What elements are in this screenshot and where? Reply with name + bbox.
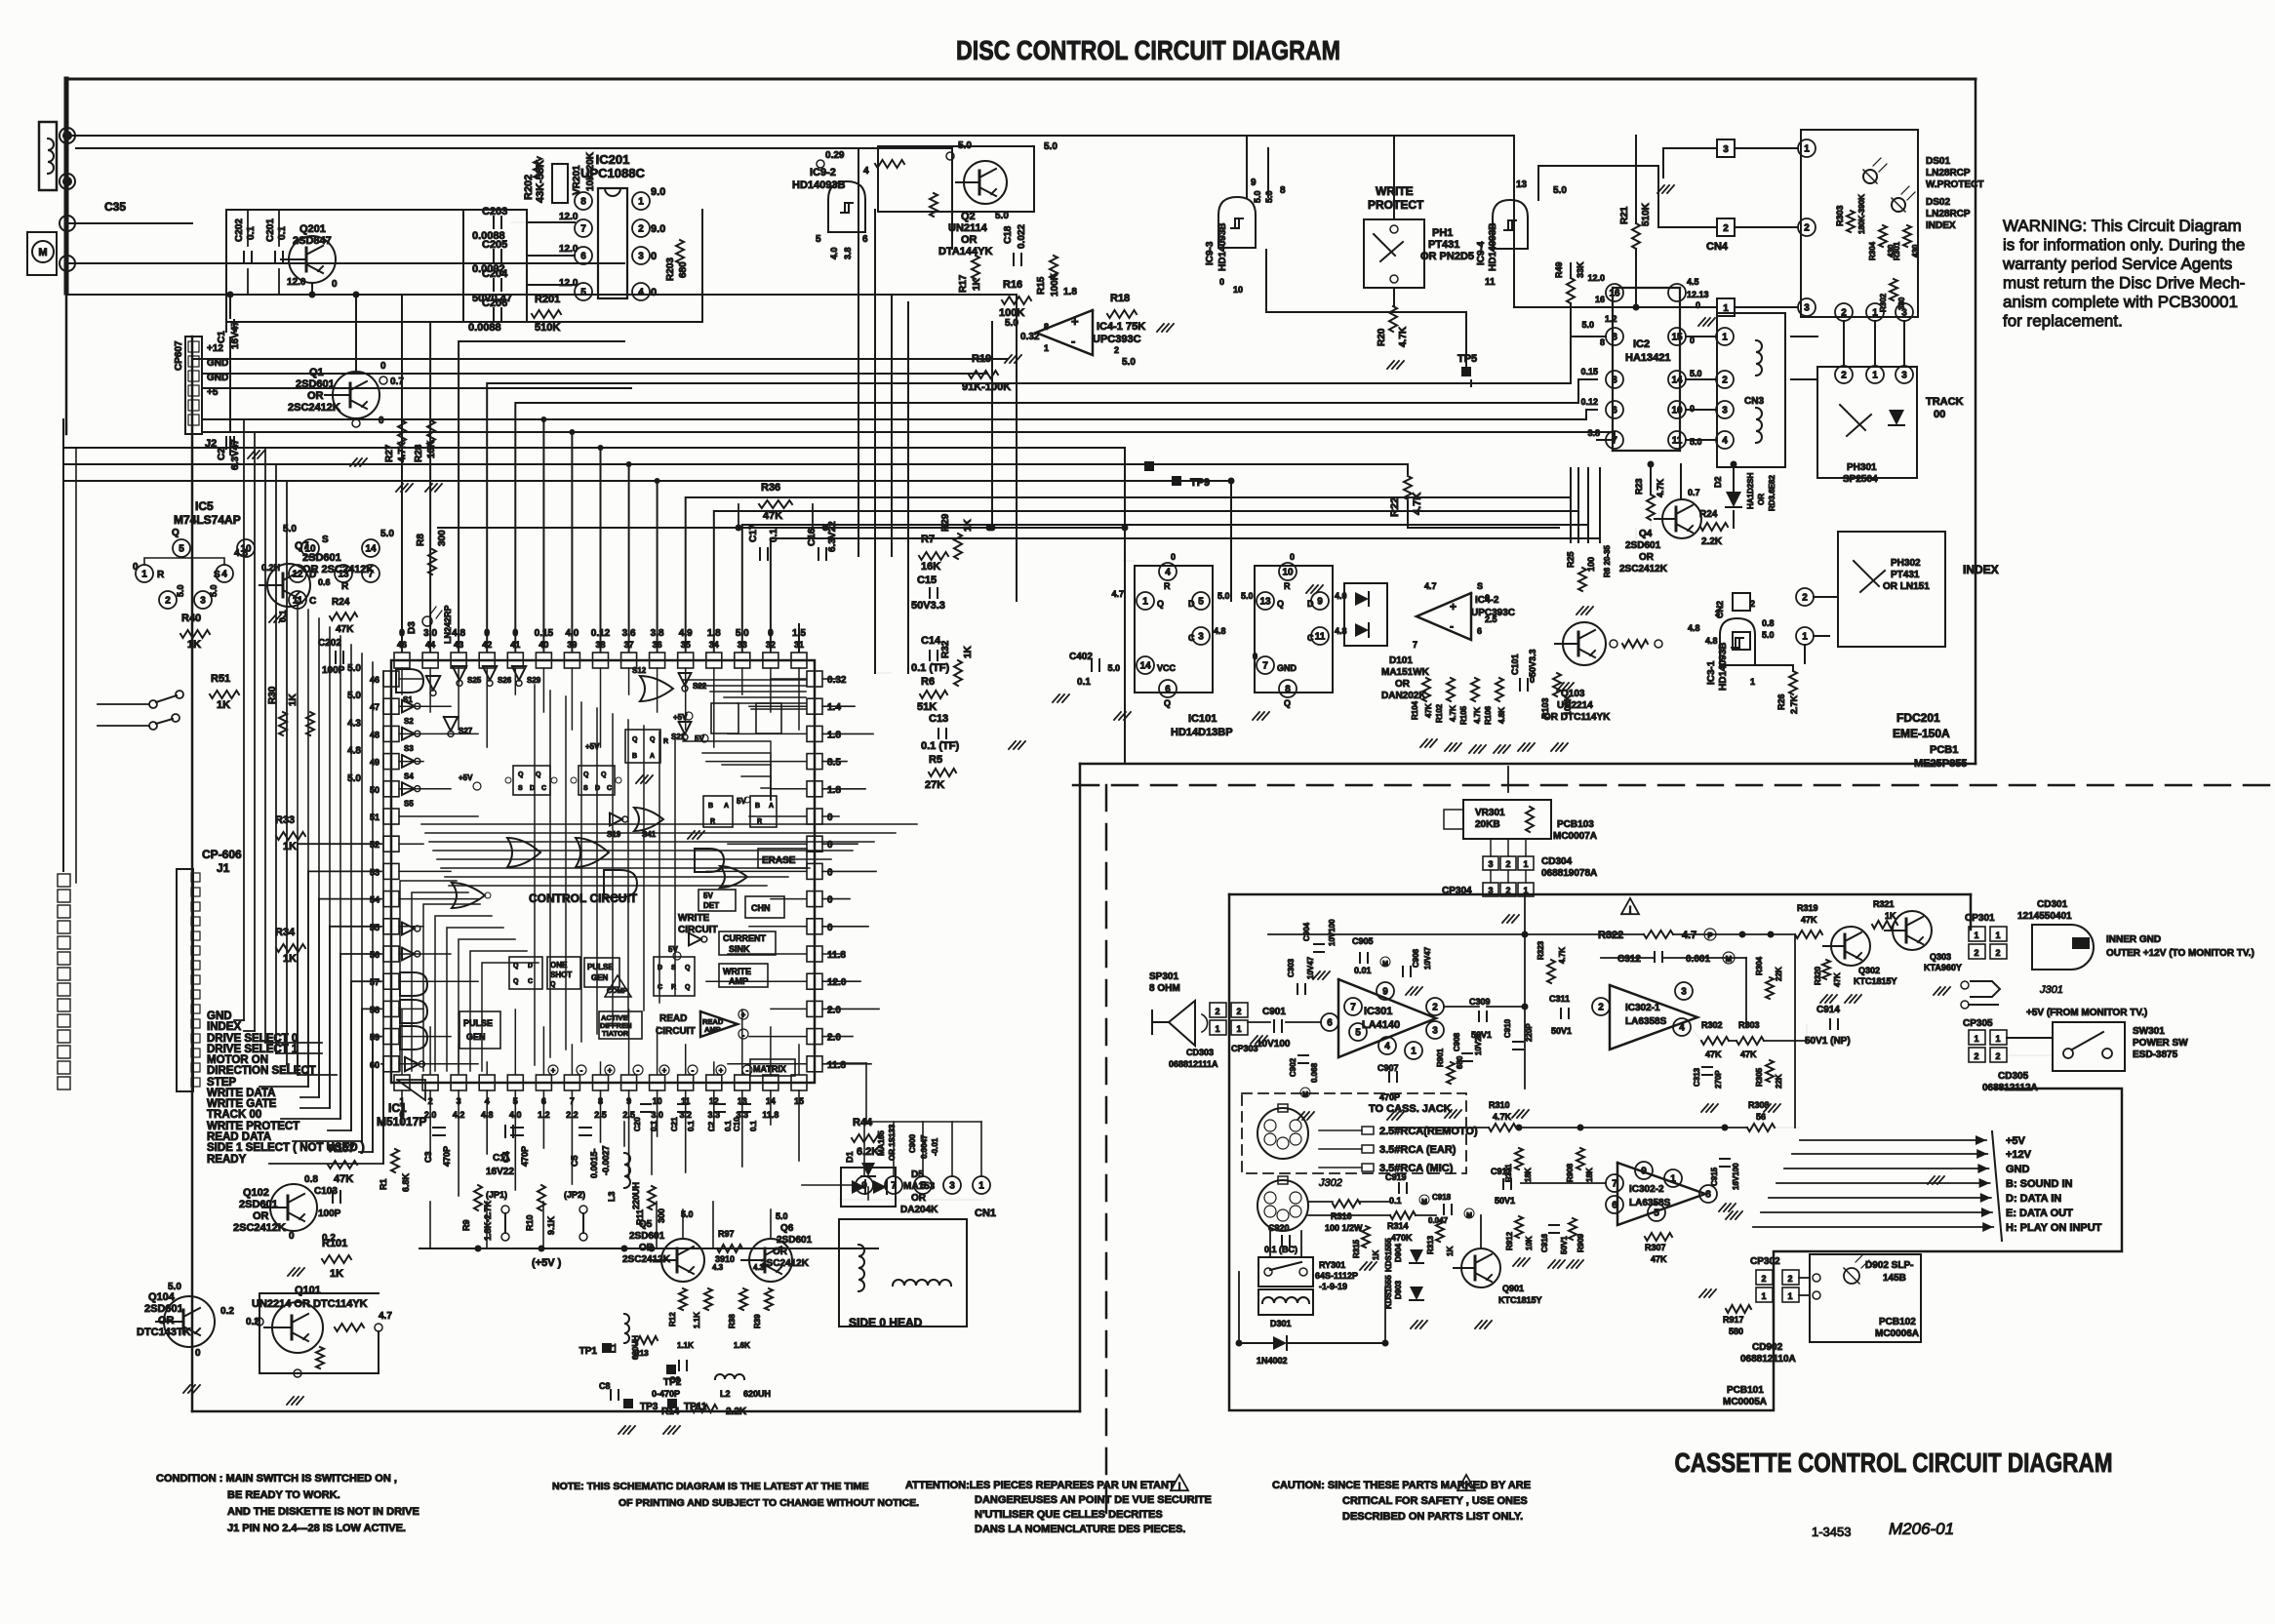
svg-text:1K: 1K	[972, 277, 982, 291]
svg-text:R15: R15	[1036, 276, 1047, 295]
svg-text:Q: Q	[536, 772, 541, 778]
svg-text:C: C	[607, 785, 612, 792]
svg-text:2.2K: 2.2K	[726, 1406, 747, 1417]
svg-text:16K: 16K	[921, 561, 940, 573]
svg-text:0: 0	[1253, 652, 1257, 661]
svg-text:R321: R321	[1873, 899, 1895, 909]
svg-text:100 1/2W: 100 1/2W	[1325, 1223, 1363, 1233]
svg-text:OF PRINTING AND SUBJECT TO CHA: OF PRINTING AND SUBJECT TO CHANGE WITHOU…	[619, 1497, 919, 1509]
svg-text:C900: C900	[908, 1133, 917, 1153]
svg-text:OR: OR	[307, 390, 324, 402]
svg-text:-: -	[1450, 619, 1454, 633]
svg-text:5.0: 5.0	[176, 584, 185, 597]
svg-text:7: 7	[1612, 1179, 1617, 1190]
svg-text:6.3V47: 6.3V47	[230, 439, 241, 470]
svg-text:2: 2	[165, 596, 171, 607]
svg-text:3.5#RCA (EAR): 3.5#RCA (EAR)	[1379, 1144, 1457, 1156]
svg-text:D: D	[528, 963, 533, 970]
svg-text:R: R	[1164, 581, 1171, 591]
svg-text:1: 1	[141, 570, 147, 580]
svg-text:IC301: IC301	[1364, 1006, 1392, 1017]
svg-text:OR 2SC2412K: OR 2SC2412K	[302, 564, 374, 575]
svg-text:31: 31	[794, 640, 804, 650]
svg-text:4.0: 4.0	[565, 628, 579, 639]
svg-text:ATTENTION:LES PIECES REPAREES: ATTENTION:LES PIECES REPAREES PAR UN ETA…	[905, 1480, 1176, 1491]
svg-text:12.0: 12.0	[1587, 273, 1605, 283]
svg-text:SW301: SW301	[2133, 1026, 2165, 1037]
svg-text:PULSE: PULSE	[463, 1018, 493, 1028]
svg-text:COMP: COMP	[607, 988, 627, 995]
svg-text:10K: 10K	[426, 440, 437, 458]
svg-text:S: S	[322, 535, 329, 545]
svg-text:1: 1	[1872, 371, 1878, 381]
svg-text:4.8: 4.8	[1214, 626, 1226, 636]
svg-text:50V3.3: 50V3.3	[911, 600, 945, 612]
svg-text:OR: OR	[253, 1210, 269, 1222]
svg-text:7: 7	[1262, 661, 1268, 672]
svg-text:2SD601: 2SD601	[629, 1231, 665, 1242]
svg-text:0.2H: 0.2H	[261, 563, 280, 573]
svg-text:IC3-1: IC3-1	[1706, 660, 1717, 685]
svg-text:OUTER +12V (TO MONITOR TV.): OUTER +12V (TO MONITOR TV.)	[2106, 948, 2255, 959]
svg-text:R908: R908	[1566, 1163, 1575, 1182]
svg-text:R32: R32	[940, 640, 951, 658]
svg-text:Q303: Q303	[1930, 952, 1951, 962]
svg-text:0: 0	[513, 628, 519, 639]
svg-text:3: 3	[1488, 886, 1493, 895]
svg-text:D904: D904	[1394, 1243, 1403, 1262]
svg-text:R301: R301	[1893, 241, 1901, 260]
svg-text:0.1: 0.1	[1077, 677, 1091, 688]
svg-text:1K: 1K	[330, 1268, 343, 1280]
svg-text:C916: C916	[1540, 1233, 1549, 1252]
svg-text:D1: D1	[845, 1151, 855, 1163]
svg-text:220P: 220P	[1525, 1023, 1534, 1042]
svg-text:C309: C309	[1469, 997, 1491, 1007]
svg-text:CAUTION: SINCE THESE PARTS: CAUTION: SINCE THESE PARTS MARKED BY ARE	[1272, 1480, 1531, 1491]
svg-text:B: B	[708, 803, 713, 810]
svg-text:1K: 1K	[1885, 911, 1896, 921]
svg-text:15: 15	[1671, 333, 1683, 343]
svg-text:C904: C904	[1302, 922, 1311, 941]
svg-text:0.1 (TF): 0.1 (TF)	[921, 740, 959, 752]
svg-text:9.1K: 9.1K	[546, 1215, 556, 1235]
svg-text:4.8: 4.8	[347, 746, 361, 757]
svg-text:11: 11	[1315, 632, 1326, 643]
svg-text:CD304: CD304	[1541, 856, 1573, 867]
svg-text:4.7: 4.7	[1111, 589, 1124, 599]
svg-text:S21: S21	[671, 733, 686, 741]
svg-text:R105: R105	[1459, 705, 1468, 725]
svg-text:C2: C2	[217, 448, 227, 460]
svg-text:2SD601: 2SD601	[239, 1199, 278, 1210]
svg-text:1: 1	[1236, 1024, 1241, 1034]
svg-text:56: 56	[370, 950, 379, 960]
svg-text:OR: OR	[1757, 494, 1766, 505]
svg-text:10K: 10K	[1525, 1236, 1534, 1250]
svg-text:HD14093B: HD14093B	[1488, 223, 1498, 271]
svg-text:1: 1	[1872, 308, 1878, 319]
svg-text:R6: R6	[921, 676, 935, 688]
svg-text:5: 5	[1654, 1208, 1659, 1219]
svg-text:IC201: IC201	[596, 152, 630, 167]
svg-text:R103: R103	[1540, 697, 1550, 719]
svg-text:0.1: 0.1	[687, 1120, 696, 1131]
svg-text:49: 49	[370, 758, 379, 768]
svg-text:5.0: 5.0	[283, 524, 297, 535]
svg-text:MC0005A: MC0005A	[1723, 1397, 1767, 1407]
svg-text:1: 1	[638, 197, 644, 208]
svg-text:DIRECTION SELECT: DIRECTION SELECT	[207, 1065, 316, 1077]
svg-text:16V47: 16V47	[230, 321, 241, 349]
svg-text:0: 0	[133, 562, 139, 573]
svg-text:12.0: 12.0	[827, 977, 847, 988]
svg-text:HD14093B: HD14093B	[1718, 643, 1729, 691]
svg-text:R303: R303	[1835, 205, 1845, 226]
svg-text:OR: OR	[639, 1243, 655, 1253]
svg-text:S4: S4	[404, 772, 414, 780]
svg-text:2.0: 2.0	[827, 1005, 841, 1015]
svg-text:3: 3	[1432, 1026, 1438, 1037]
svg-text:C5: C5	[570, 1155, 579, 1167]
svg-text:1: 1	[1523, 859, 1528, 869]
svg-text:R16: R16	[1003, 279, 1022, 291]
svg-text:1: 1	[1044, 343, 1049, 353]
svg-text:145B: 145B	[1883, 1273, 1906, 1284]
svg-text:-: -	[692, 1066, 695, 1075]
svg-text:C918: C918	[1432, 1193, 1452, 1202]
svg-text:C35: C35	[104, 200, 126, 214]
svg-text:R917: R917	[1723, 1315, 1744, 1325]
svg-text:-: -	[580, 1066, 583, 1075]
svg-text:4.7K: 4.7K	[1558, 947, 1567, 964]
svg-text:R304: R304	[1755, 956, 1764, 975]
svg-text:C914: C914	[1816, 1005, 1840, 1015]
svg-text:R24: R24	[332, 597, 350, 608]
svg-text:1: 1	[1995, 1034, 2000, 1044]
svg-text:48: 48	[370, 730, 379, 739]
svg-text:DTA144YK: DTA144YK	[938, 246, 992, 257]
svg-text:56: 56	[1756, 1112, 1766, 1122]
svg-text:R12: R12	[668, 1312, 677, 1327]
svg-text:C10: C10	[733, 1117, 741, 1131]
svg-text:4.7K: 4.7K	[1473, 707, 1482, 724]
svg-text:1K: 1K	[187, 639, 201, 651]
svg-text:3.8: 3.8	[843, 247, 853, 259]
svg-text:5: 5	[179, 544, 184, 555]
svg-text:!: !	[1177, 1482, 1180, 1492]
svg-text:2SD601: 2SD601	[302, 552, 341, 564]
svg-text:+5V: +5V	[459, 773, 473, 782]
svg-text:Q6: Q6	[780, 1223, 794, 1234]
svg-text:GEN: GEN	[591, 973, 609, 982]
svg-text:TRACK: TRACK	[1926, 396, 1964, 408]
svg-text:6: 6	[1612, 406, 1617, 416]
svg-text:IC5: IC5	[195, 499, 214, 513]
svg-text:0: 0	[827, 923, 833, 933]
svg-text:Q: Q	[1277, 599, 1284, 609]
svg-text:2: 2	[1505, 886, 1510, 895]
svg-text:4.7K: 4.7K	[397, 441, 408, 462]
svg-text:8 OHM: 8 OHM	[1149, 983, 1180, 994]
svg-text:S29: S29	[527, 676, 541, 685]
svg-text:4.9: 4.9	[679, 628, 693, 639]
svg-text:R36: R36	[761, 482, 780, 494]
svg-text:510K: 510K	[535, 322, 560, 334]
svg-text:R39: R39	[753, 1314, 762, 1328]
svg-text:40: 40	[539, 640, 548, 650]
svg-text:0.7: 0.7	[390, 376, 404, 387]
svg-text:47K: 47K	[1833, 972, 1842, 987]
svg-text:620UH: 620UH	[631, 1335, 640, 1360]
svg-text:+12V: +12V	[2006, 1149, 2032, 1161]
svg-text:H: PLAY ON INPUT: H: PLAY ON INPUT	[2006, 1222, 2102, 1234]
svg-text:D903: D903	[1394, 1280, 1403, 1299]
svg-text:C902: C902	[1289, 1057, 1297, 1077]
svg-text:4.5: 4.5	[1687, 277, 1699, 287]
svg-text:3: 3	[1488, 859, 1493, 869]
svg-text:IC302-1: IC302-1	[1625, 1003, 1660, 1013]
svg-text:R27: R27	[384, 444, 395, 462]
svg-text:W.PROTECT: W.PROTECT	[1926, 179, 1983, 190]
svg-text:47K: 47K	[763, 510, 782, 522]
svg-text:R308: R308	[1748, 1100, 1770, 1110]
svg-text:TP2: TP2	[663, 1377, 682, 1388]
svg-text:59: 59	[370, 1033, 379, 1043]
svg-text:50V1: 50V1	[1495, 1196, 1515, 1206]
svg-text:UN2214 OR DTC114YK: UN2214 OR DTC114YK	[252, 1298, 368, 1310]
svg-text:12.0: 12.0	[559, 212, 579, 222]
svg-text:2SC2412K: 2SC2412K	[761, 1258, 810, 1269]
svg-text:warranty period Service Agen: warranty period Service Agents	[2002, 255, 2232, 273]
svg-text:5.0: 5.0	[347, 773, 361, 784]
svg-text:1: 1	[1761, 1291, 1766, 1301]
svg-text:A: A	[724, 803, 729, 810]
svg-text:!: !	[1628, 905, 1631, 916]
svg-text:MC0007A: MC0007A	[1553, 831, 1597, 842]
svg-text:5.0: 5.0	[347, 663, 361, 674]
svg-text:3.8: 3.8	[1587, 428, 1600, 438]
svg-text:4: 4	[221, 570, 227, 580]
svg-text:2: 2	[1236, 1007, 1241, 1016]
svg-text:1214550401: 1214550401	[2017, 911, 2072, 922]
svg-text:PT431: PT431	[1428, 239, 1459, 251]
svg-text:220UH: 220UH	[631, 1182, 641, 1209]
svg-text:C2: C2	[707, 1121, 716, 1131]
svg-text:5: 5	[580, 288, 586, 298]
svg-text:D3: D3	[407, 621, 418, 634]
svg-text:0.15: 0.15	[1580, 367, 1598, 376]
svg-text:5.0: 5.0	[1690, 437, 1702, 447]
svg-text:47K: 47K	[1740, 1050, 1757, 1059]
svg-text:38: 38	[595, 640, 605, 650]
svg-text:2.5: 2.5	[1485, 614, 1497, 624]
svg-text:R104: R104	[1411, 700, 1419, 720]
svg-text:J2: J2	[205, 438, 217, 450]
svg-text:(JP1): (JP1)	[486, 1190, 507, 1200]
svg-text:Q: Q	[1284, 698, 1291, 708]
svg-text:C14: C14	[921, 635, 941, 647]
svg-text:Q: Q	[513, 963, 519, 970]
svg-text:3: 3	[1612, 376, 1617, 386]
svg-text:0.8: 0.8	[304, 1174, 318, 1185]
svg-text:33K: 33K	[1576, 261, 1585, 278]
svg-text:50V1 (NP): 50V1 (NP)	[1805, 1036, 1851, 1047]
svg-text:55: 55	[370, 923, 379, 932]
svg-text:4.7K: 4.7K	[1449, 705, 1457, 722]
svg-text:2.7K: 2.7K	[1789, 694, 1799, 714]
svg-text:B: B	[755, 803, 760, 810]
svg-text:VCC: VCC	[1157, 663, 1177, 673]
svg-text:UN2114: UN2114	[948, 222, 988, 234]
svg-text:6: 6	[862, 234, 868, 245]
svg-text:CURRENT: CURRENT	[723, 933, 767, 943]
svg-text:HD14093B: HD14093B	[1217, 223, 1228, 271]
svg-text:10K-20K: 10K-20K	[585, 151, 596, 191]
svg-text:2SD601: 2SD601	[296, 378, 335, 390]
svg-text:0.2: 0.2	[220, 1306, 234, 1317]
svg-text:10: 10	[1671, 406, 1683, 416]
svg-text:1-3453: 1-3453	[1812, 1525, 1851, 1539]
svg-text:1.8: 1.8	[827, 785, 841, 796]
svg-text:C203: C203	[482, 206, 507, 218]
svg-text:C915: C915	[1710, 1167, 1719, 1186]
svg-text:430: 430	[1911, 244, 1920, 257]
svg-text:GND: GND	[207, 373, 228, 383]
svg-text:C103: C103	[314, 1186, 338, 1197]
svg-text:300: 300	[437, 530, 448, 546]
svg-text:47K: 47K	[1801, 915, 1817, 925]
svg-text:6: 6	[580, 252, 586, 262]
svg-text:R38: R38	[728, 1314, 737, 1328]
svg-text:580: 580	[1729, 1327, 1743, 1336]
svg-text:R101: R101	[322, 1238, 347, 1249]
svg-text:16V100: 16V100	[1732, 1163, 1740, 1190]
svg-text:2SD601: 2SD601	[144, 1303, 183, 1315]
svg-text:C21: C21	[670, 1117, 679, 1131]
svg-text:S12: S12	[632, 666, 647, 675]
svg-text:2: 2	[1432, 1003, 1438, 1013]
svg-text:4: 4	[638, 288, 644, 298]
svg-text:SIDE 0 HEAD: SIDE 0 HEAD	[849, 1316, 923, 1329]
svg-text:R97: R97	[718, 1229, 735, 1239]
svg-text:C8: C8	[599, 1381, 611, 1391]
svg-text:DS01: DS01	[1926, 156, 1950, 167]
svg-text:+: +	[662, 1066, 667, 1075]
svg-text:M: M	[1382, 961, 1388, 968]
svg-text:13: 13	[1259, 597, 1271, 608]
svg-text:0.1: 0.1	[769, 529, 779, 542]
svg-text:4.7: 4.7	[379, 1311, 392, 1322]
svg-text:TP1: TP1	[579, 1346, 598, 1357]
svg-text:HD14D13BP: HD14D13BP	[1171, 727, 1233, 738]
svg-text:2: 2	[638, 224, 644, 235]
svg-text:GND: GND	[2006, 1164, 2030, 1175]
svg-text:ERASE: ERASE	[762, 855, 796, 866]
svg-text:0.7: 0.7	[1688, 488, 1700, 497]
svg-text:2: 2	[1841, 308, 1847, 319]
svg-text:WRITE: WRITE	[723, 967, 751, 976]
svg-text:2: 2	[1974, 1051, 1978, 1061]
svg-text:41: 41	[510, 640, 520, 650]
svg-text:IC1: IC1	[388, 1101, 407, 1115]
svg-text:4.7K: 4.7K	[1412, 493, 1423, 515]
svg-text:R304: R304	[1868, 241, 1877, 260]
svg-text:2: 2	[1723, 223, 1729, 234]
svg-text:C402: C402	[1069, 652, 1093, 662]
svg-text:2SD847: 2SD847	[293, 235, 332, 247]
svg-text:Q: Q	[685, 965, 691, 971]
svg-text:C11: C11	[493, 1153, 510, 1164]
svg-text:INDEX: INDEX	[1963, 563, 1999, 576]
svg-text:2: 2	[1787, 1274, 1792, 1284]
svg-text:D: DATA IN: D: DATA IN	[2006, 1193, 2061, 1205]
svg-text:SHOT: SHOT	[550, 970, 572, 979]
svg-text:D301: D301	[1270, 1319, 1292, 1328]
svg-text:VR301: VR301	[1475, 808, 1505, 818]
svg-text:5.0: 5.0	[1253, 190, 1262, 203]
svg-text:KTC1815Y: KTC1815Y	[1498, 1295, 1542, 1305]
svg-text:SINK: SINK	[729, 944, 750, 954]
svg-text:R323: R323	[1537, 940, 1545, 960]
svg-text:IC2: IC2	[1633, 338, 1650, 350]
svg-text:PH301: PH301	[1847, 462, 1877, 473]
svg-text:R322: R322	[1598, 930, 1623, 941]
svg-text:53: 53	[370, 867, 379, 877]
svg-text:C919: C919	[1385, 1172, 1407, 1182]
svg-text:+5V: +5V	[585, 742, 600, 751]
svg-text:R29: R29	[940, 513, 951, 532]
svg-text:R34: R34	[275, 927, 296, 938]
svg-text:5V: 5V	[703, 891, 713, 900]
svg-text:Q901: Q901	[1502, 1284, 1524, 1293]
svg-text:+5: +5	[207, 387, 219, 398]
svg-text:R307: R307	[1645, 1243, 1666, 1252]
svg-text:3.0: 3.0	[423, 628, 437, 639]
svg-text:C16: C16	[807, 528, 818, 546]
svg-text:5.0: 5.0	[1107, 663, 1120, 673]
svg-text:1: 1	[1411, 1047, 1417, 1057]
svg-text:4.7K: 4.7K	[1493, 1112, 1512, 1122]
svg-text:6.8K: 6.8K	[401, 1172, 411, 1192]
svg-text:3: 3	[200, 596, 206, 607]
svg-text:+12: +12	[207, 343, 223, 354]
svg-text:LN28RCP: LN28RCP	[1926, 168, 1971, 178]
svg-text:5.0: 5.0	[1553, 185, 1567, 196]
svg-text:S3: S3	[404, 744, 414, 753]
svg-text:Q: Q	[685, 984, 691, 991]
svg-text:1: 1	[1974, 931, 1978, 940]
svg-text:C901: C901	[1262, 1007, 1286, 1017]
svg-text:R320: R320	[1814, 966, 1822, 985]
svg-text:5.0: 5.0	[1581, 320, 1594, 330]
svg-text:2: 2	[1722, 376, 1728, 386]
svg-text:L2: L2	[720, 1389, 731, 1399]
svg-text:R22: R22	[1389, 497, 1401, 517]
svg-text:9: 9	[1317, 597, 1323, 608]
svg-text:TIATOR: TIATOR	[602, 1029, 629, 1038]
svg-text:Q: Q	[518, 772, 524, 778]
svg-text:18K: 18K	[1524, 1168, 1533, 1182]
svg-text:0.0047: 0.0047	[920, 1134, 929, 1159]
svg-text:CP303: CP303	[1231, 1044, 1258, 1053]
svg-text:4.8: 4.8	[452, 628, 465, 639]
svg-text:8: 8	[1612, 333, 1617, 343]
svg-text:4.7: 4.7	[1424, 581, 1437, 591]
svg-text:R21: R21	[1619, 206, 1630, 224]
svg-text:5: 5	[920, 1181, 926, 1192]
svg-text:D101: D101	[1389, 655, 1413, 666]
